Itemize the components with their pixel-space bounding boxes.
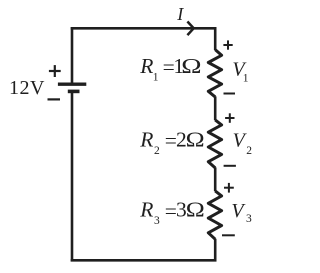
svg-text:Ω: Ω <box>181 55 201 79</box>
svg-text:2: 2 <box>154 145 160 157</box>
svg-text:Ω: Ω <box>186 128 205 152</box>
svg-text:1: 1 <box>243 73 249 85</box>
svg-text:3: 3 <box>154 215 160 227</box>
svg-text:2: 2 <box>246 145 252 157</box>
svg-text:R: R <box>139 127 153 151</box>
svg-text:R: R <box>139 198 153 222</box>
svg-text:1: 1 <box>153 72 159 84</box>
svg-text:I: I <box>176 4 184 24</box>
svg-text:12V: 12V <box>9 77 45 99</box>
svg-text:Ω: Ω <box>186 198 205 222</box>
svg-text:R: R <box>139 54 153 78</box>
svg-text:3: 3 <box>246 213 252 225</box>
